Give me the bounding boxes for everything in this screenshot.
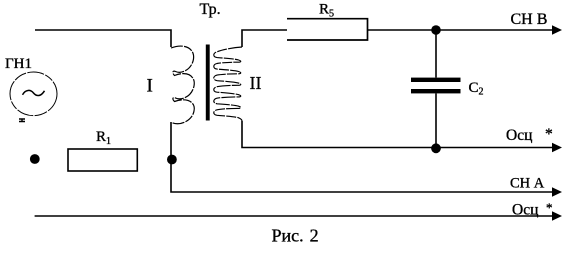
- transformer secondary winding II: [214, 47, 242, 121]
- wire: top left horizontal to primary: [35, 30, 171, 47]
- node junction top (cap top): [431, 25, 441, 35]
- generator sine symbol: [23, 90, 45, 95]
- node dot left terminal: [30, 154, 40, 164]
- svg-text:ГН1: ГН1: [5, 56, 32, 72]
- capacitor C2 top plate: [411, 78, 461, 82]
- svg-text:Рис. 2: Рис. 2: [272, 226, 319, 246]
- svg-text:R1: R1: [96, 129, 111, 147]
- arrow Osc* (bottom): [552, 211, 562, 221]
- svg-text:I: I: [147, 76, 153, 97]
- node junction primary bottom: [167, 155, 177, 165]
- wire: bottom Osc* line: [35, 215, 554, 217]
- wire: capacitor down to Osc line: [435, 93, 437, 147]
- arrow CH B: [552, 25, 562, 35]
- generator GN1 circle: [10, 72, 57, 116]
- svg-text:Осц: Осц: [512, 202, 538, 219]
- svg-text:*: *: [545, 126, 553, 143]
- transformer core: [206, 45, 210, 121]
- svg-text:R5: R5: [319, 2, 334, 20]
- wire: primary bottom down and right to CH A arrow: [171, 122, 554, 192]
- svg-text:С2: С2: [469, 80, 484, 98]
- svg-text:Осц: Осц: [506, 127, 532, 144]
- svg-text:II: II: [250, 73, 262, 93]
- wire: secondary bottom to Osc* arrow: [242, 121, 554, 148]
- resistor R1: [68, 149, 137, 171]
- transformer T1 primary winding I: [171, 46, 194, 124]
- arrow Osc* (middle): [552, 143, 562, 153]
- wire: R5 to CH B arrow: [368, 29, 555, 31]
- generator polarity mark: [19, 119, 25, 122]
- svg-text:СН В: СН В: [511, 11, 548, 28]
- node junction on Osc line: [431, 143, 441, 153]
- wire: secondary top up and right to R5: [242, 30, 287, 47]
- svg-text:*: *: [546, 200, 553, 215]
- resistor R5 (open left box): [287, 19, 368, 40]
- svg-text:Тр.: Тр.: [200, 1, 221, 18]
- capacitor C2 bottom plate: [411, 89, 461, 93]
- arrow CH A: [552, 187, 562, 197]
- svg-text:СН А: СН А: [510, 176, 545, 192]
- wire: junction down to capacitor: [435, 30, 437, 78]
